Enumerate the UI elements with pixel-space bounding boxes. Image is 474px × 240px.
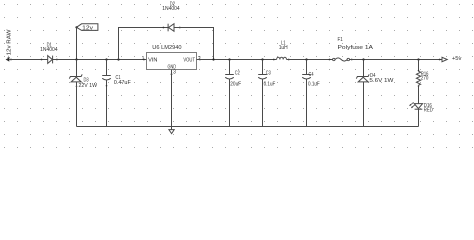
- capacitor C2 20uF: [225, 60, 241, 127]
- svg-text:C2: C2: [235, 70, 240, 76]
- wire VOUT to L1: [197, 59, 277, 61]
- junction node C1: [105, 58, 107, 60]
- wire GND pin to rail: [171, 70, 173, 127]
- input port arrow +12v RAW: [6, 29, 13, 61]
- svg-text:U6 LM2940: U6 LM2940: [152, 45, 182, 51]
- LED D16 RED: [409, 102, 433, 113]
- junction node 12v: [75, 58, 77, 60]
- svg-text:C3: C3: [266, 70, 271, 76]
- capacitor C1 0.47uF: [102, 60, 131, 127]
- svg-text:1uH: 1uH: [279, 45, 288, 51]
- diode D2 1N4004 bypass: [162, 1, 181, 31]
- wire flag to main: [76, 27, 78, 59]
- svg-text:VIN: VIN: [148, 58, 158, 64]
- fuse F1 Polyfuse 1A: [329, 37, 374, 61]
- svg-text:1N4004: 1N4004: [40, 47, 58, 53]
- wire L1 to fuse: [287, 59, 333, 61]
- wire D1 to VIN: [53, 59, 147, 61]
- wire R16 to LED: [418, 85, 420, 103]
- svg-text:3: 3: [173, 69, 176, 75]
- svg-text:22V 1W: 22V 1W: [79, 83, 98, 89]
- wire bypass down right: [213, 28, 215, 60]
- svg-text:C4: C4: [309, 72, 314, 78]
- svg-text:0.1uF: 0.1uF: [308, 82, 320, 88]
- output port +5v: [439, 56, 462, 62]
- diode D1: [40, 43, 58, 64]
- wire fuse to +5v: [350, 59, 442, 61]
- junction node C3: [261, 58, 263, 60]
- junction node bypass left: [117, 58, 119, 60]
- svg-text:0.47uF: 0.47uF: [114, 80, 131, 86]
- wire bypass top rail left: [118, 27, 168, 29]
- svg-text:Polyfuse 1A: Polyfuse 1A: [338, 45, 374, 51]
- wire down to zener D3: [76, 60, 78, 77]
- ground symbol: [169, 127, 174, 134]
- svg-text:12v: 12v: [82, 25, 93, 31]
- power flag 12V: [75, 24, 98, 32]
- svg-text:1N4004: 1N4004: [162, 6, 180, 12]
- bottom ground rail: [77, 126, 419, 128]
- junction node bypass right: [212, 58, 214, 60]
- capacitor C3 0.1uF: [258, 60, 275, 127]
- svg-text:0.1uF: 0.1uF: [264, 82, 276, 88]
- wire bypass top rail right: [174, 27, 214, 29]
- zener diode D3 22V 1W: [69, 74, 97, 88]
- resistor R16 270: [416, 60, 428, 87]
- svg-text:20uF: 20uF: [230, 82, 241, 88]
- svg-text:F1: F1: [338, 37, 343, 43]
- wire zener to rail: [76, 82, 78, 127]
- svg-text:+12v RAW: +12v RAW: [6, 29, 12, 59]
- svg-text:RED: RED: [424, 107, 433, 113]
- svg-text:+5v: +5v: [452, 56, 462, 62]
- zener diode D4 5.6V 1W: [356, 73, 393, 84]
- junction node D4: [362, 58, 364, 60]
- wire LED to rail: [418, 109, 420, 126]
- svg-text:270: 270: [421, 76, 429, 82]
- junction node C4: [305, 58, 307, 60]
- wire down to zener D4: [363, 60, 365, 77]
- svg-text:VOUT: VOUT: [183, 58, 195, 64]
- wire zener D4 to rail: [363, 82, 365, 127]
- wire input segment: [9, 59, 47, 61]
- inductor L1 1uH: [273, 40, 290, 60]
- junction node R16: [417, 58, 419, 60]
- capacitor C4 0.1uF: [302, 60, 320, 127]
- junction node C2: [228, 58, 230, 60]
- svg-text:5.6V 1W: 5.6V 1W: [369, 78, 393, 84]
- wire bypass up left: [118, 28, 120, 60]
- voltage regulator U6 LM2940: [142, 45, 201, 76]
